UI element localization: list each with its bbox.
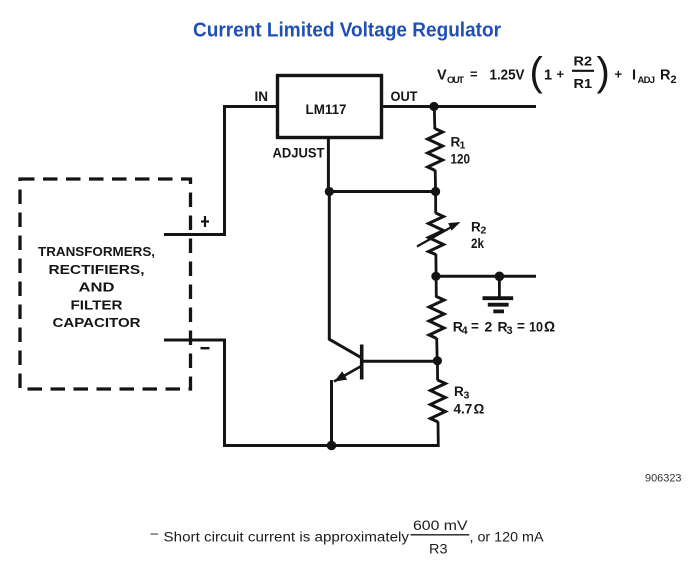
svg-text:Short circuit current is appro: Short circuit current is approximately <box>164 530 410 545</box>
svg-text:R: R <box>660 68 671 84</box>
node dot R2 bottom <box>431 272 440 281</box>
svg-text:AND: AND <box>79 280 115 295</box>
part number 906323 <box>645 473 682 485</box>
svg-text:V: V <box>437 68 447 84</box>
svg-text:2: 2 <box>671 74 677 86</box>
resistor R2 (variable) <box>417 213 487 255</box>
node dot adjust <box>325 187 334 196</box>
svg-text:3: 3 <box>464 390 470 402</box>
regulator U1 LM117 box <box>278 76 382 138</box>
wire adjust horizontal <box>328 190 436 193</box>
wire left vertical lower <box>223 339 226 448</box>
svg-text:10: 10 <box>529 319 543 335</box>
svg-text:ADJUST: ADJUST <box>273 146 326 161</box>
wire node to R2 <box>434 192 437 214</box>
svg-text:–: – <box>151 526 159 541</box>
svg-text:LM117: LM117 <box>306 101 347 117</box>
wire minus lead <box>164 339 226 342</box>
pin label ADJUST <box>273 146 326 161</box>
svg-text:, or 120 mA: , or 120 mA <box>470 530 544 545</box>
wire plus lead <box>164 233 226 236</box>
node dot R1 bottom <box>431 187 440 196</box>
svg-text:R2: R2 <box>574 54 593 69</box>
svg-text:I: I <box>632 68 636 84</box>
note: short circuit current <box>151 518 544 557</box>
node dot base <box>433 356 442 365</box>
wire bottom rail <box>223 444 438 447</box>
plus sign <box>201 216 209 227</box>
svg-text:IN: IN <box>255 89 269 104</box>
dashed box transformers/rectifiers <box>20 179 191 389</box>
wire R3 to bottom rail <box>437 422 440 448</box>
svg-text:CAPACITOR: CAPACITOR <box>53 315 142 330</box>
svg-text:R: R <box>454 384 464 399</box>
svg-text:=: = <box>471 319 479 334</box>
svg-text:FILTER: FILTER <box>71 297 124 312</box>
svg-text:=: = <box>517 319 525 334</box>
svg-text:Current Limited Voltage Regula: Current Limited Voltage Regulator <box>193 19 501 42</box>
svg-text:OUT: OUT <box>447 75 464 86</box>
node dot ground tap <box>495 272 505 282</box>
svg-text:R3: R3 <box>429 542 448 557</box>
wire R1 to adjust node <box>434 170 437 193</box>
svg-text:RECTIFIERS,: RECTIFIERS, <box>49 262 145 277</box>
resistor R4 <box>429 297 555 339</box>
svg-text:(: ( <box>530 50 544 94</box>
svg-text:120: 120 <box>451 152 471 167</box>
svg-text:Ω: Ω <box>474 401 485 417</box>
svg-text:ADJ: ADJ <box>638 75 656 86</box>
pin label OUT <box>391 89 419 104</box>
wire ground row horizontal <box>436 275 536 278</box>
svg-text:+: + <box>615 67 623 82</box>
wire node to R4 <box>435 276 438 297</box>
wire OUT node to R1 <box>433 107 436 130</box>
svg-text:2: 2 <box>485 319 493 335</box>
svg-text:2: 2 <box>481 225 487 237</box>
pin label IN <box>255 89 269 104</box>
svg-text:1: 1 <box>460 140 466 152</box>
svg-text:R: R <box>471 220 481 235</box>
svg-text:OUT: OUT <box>391 89 419 104</box>
transistor Q1 <box>329 190 439 447</box>
wire base node to R3 <box>436 361 439 381</box>
wire left vertical upper <box>223 105 226 235</box>
svg-text:600 mV: 600 mV <box>413 518 468 533</box>
svg-text:1: 1 <box>544 68 552 84</box>
svg-text:4: 4 <box>462 325 469 337</box>
svg-text:TRANSFORMERS,: TRANSFORMERS, <box>38 244 155 259</box>
node dot OUT <box>429 102 438 111</box>
svg-text:Ω: Ω <box>544 320 555 336</box>
wire IN to box <box>223 105 278 108</box>
svg-text:): ) <box>597 50 610 94</box>
wire OUT to right <box>382 105 537 108</box>
resistor R1 <box>428 129 470 171</box>
title: Current Limited Voltage Regulator <box>193 19 501 42</box>
wire R4 to base node <box>435 338 438 362</box>
formula Vout = 1.25V(1 + R2/R1) + Iadj R2 <box>437 50 677 94</box>
wire ADJUST pin <box>327 137 330 193</box>
svg-text:906323: 906323 <box>645 473 682 485</box>
svg-text:=: = <box>470 67 478 82</box>
wire R2 to ground row <box>434 254 437 278</box>
svg-text:R1: R1 <box>574 76 593 91</box>
svg-text:2k: 2k <box>471 236 484 251</box>
svg-text:+: + <box>557 67 565 82</box>
svg-text:4.7: 4.7 <box>454 402 473 417</box>
node dot emitter bottom <box>327 441 337 451</box>
minus sign <box>201 347 210 349</box>
svg-text:1.25V: 1.25V <box>490 68 525 84</box>
svg-text:3: 3 <box>507 325 513 337</box>
ground <box>483 276 514 311</box>
resistor R3 <box>430 380 484 422</box>
